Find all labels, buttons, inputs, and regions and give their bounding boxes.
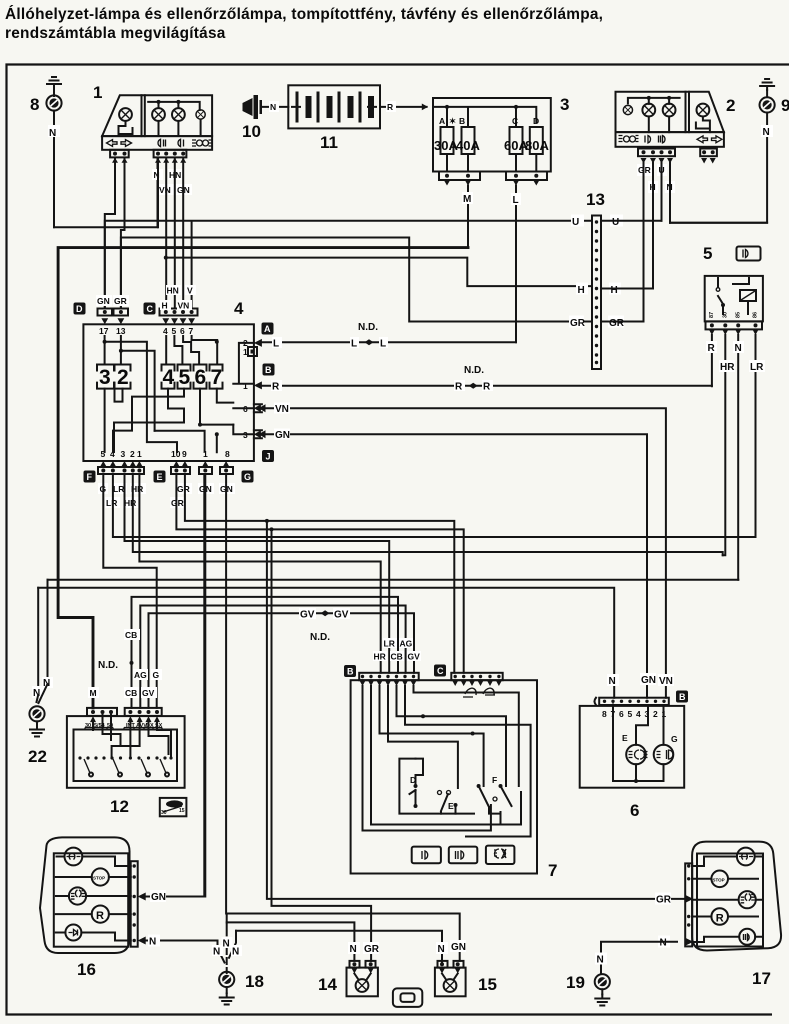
svg-text:D: D (76, 304, 83, 314)
top pin numbers (99, 326, 194, 336)
svg-text:N: N (149, 937, 156, 948)
svg-text:VN: VN (159, 185, 171, 195)
svg-text:U: U (572, 217, 579, 228)
M and L wires from fuses (468, 186, 516, 343)
svg-text:R: R (483, 382, 491, 393)
svg-text:H: H (611, 285, 618, 296)
svg-text:R: R (272, 382, 280, 393)
svg-text:G: G (671, 734, 678, 744)
icon boxes (412, 847, 441, 864)
svg-text:5: 5 (628, 709, 633, 719)
internal wiring (105, 336, 177, 452)
svg-text:8: 8 (225, 449, 230, 459)
pedal icon box (160, 798, 187, 816)
svg-text:40A: 40A (456, 138, 480, 153)
wire GN: block4 to tail lamp 16 (204, 474, 206, 897)
svg-text:HR: HR (124, 498, 136, 508)
svg-text:D: D (533, 116, 539, 126)
svg-text:L: L (513, 195, 519, 206)
svg-text:6: 6 (619, 709, 624, 719)
svg-text:1: 1 (93, 83, 102, 102)
B pad (344, 665, 356, 677)
wire GV: switch 12 to unit 7 (149, 613, 415, 708)
svg-text:GN: GN (451, 942, 466, 953)
svg-text:N: N (597, 955, 604, 966)
svg-text:14: 14 (318, 975, 337, 994)
svg-text:LR: LR (384, 639, 395, 649)
svg-text:7: 7 (189, 326, 194, 336)
svg-text:5: 5 (179, 366, 191, 389)
labels on comp12 feeds (124, 629, 140, 640)
ground 19 (566, 942, 677, 1006)
pads (638, 149, 675, 157)
svg-text:Állóhelyzet-lámpa és ellenőrző: Állóhelyzet-lámpa és ellenőrzőlámpa, tom… (5, 6, 603, 23)
svg-text:N: N (735, 343, 742, 354)
lamp L1 (119, 108, 132, 121)
svg-text:HN: HN (167, 286, 179, 296)
svg-text:GR: GR (570, 318, 586, 329)
svg-text:N.D.: N.D. (358, 322, 378, 333)
svg-text:STOP: STOP (93, 876, 105, 881)
svg-text:6: 6 (180, 326, 185, 336)
svg-text:22: 22 (28, 747, 47, 766)
ground 8 (30, 77, 62, 227)
strip icons (619, 136, 623, 142)
plate lamp 15 (435, 940, 497, 996)
svg-text:N: N (223, 939, 230, 950)
svg-text:13: 13 (586, 190, 605, 209)
svg-text:GR: GR (656, 895, 672, 906)
svg-text:L: L (273, 339, 279, 350)
svg-text:L: L (380, 339, 386, 350)
svg-text:GN: GN (97, 296, 110, 306)
F/E pad wire labels (98, 483, 235, 508)
svg-text:R: R (96, 910, 104, 922)
svg-text:C: C (437, 666, 444, 676)
right side of 13: U/H/GR to comp2 (601, 221, 767, 223)
U row (105, 221, 592, 309)
svg-text:B: B (347, 667, 354, 677)
svg-text:R: R (455, 382, 463, 393)
A B J labels right (262, 323, 275, 463)
wire GR: junction to plate lamp 14 (272, 529, 372, 961)
body outline (102, 95, 212, 136)
svg-text:30: 30 (161, 810, 167, 816)
svg-text:STOP: STOP (713, 877, 725, 882)
svg-text:A: A (439, 116, 445, 126)
svg-text:H: H (578, 285, 585, 296)
svg-text:N: N (49, 128, 56, 139)
wire N: ground 22 to relay 5 pin 85 (48, 579, 739, 581)
svg-text:CB: CB (125, 630, 137, 640)
svg-text:C: C (147, 304, 154, 314)
wire N: ground 18 to plate lamp 14 (227, 914, 355, 961)
svg-text:C: C (512, 116, 518, 126)
svg-text:F: F (87, 472, 93, 482)
internal ground hooks under C (463, 688, 495, 697)
svg-text:2: 2 (726, 96, 735, 115)
svg-text:GR: GR (114, 296, 127, 306)
svg-text:M: M (463, 194, 471, 205)
ground 18 (212, 922, 264, 1004)
switch D (399, 759, 474, 814)
svg-text:HR: HR (374, 652, 386, 662)
svg-text:3: 3 (99, 366, 111, 389)
svg-text:2: 2 (130, 449, 135, 459)
wire HR: block4 pin 2 to relay 5 pin 30 (133, 474, 723, 555)
svg-text:U: U (612, 217, 619, 228)
svg-text:LR: LR (106, 498, 117, 508)
svg-text:B: B (265, 365, 272, 375)
svg-text:GN: GN (275, 430, 290, 441)
svg-text:30: 30 (723, 312, 729, 318)
fuse C 60A (510, 127, 523, 154)
svg-text:4: 4 (163, 366, 175, 389)
tail lamp unit 17 (right) (685, 842, 781, 988)
wire GR: block4 pin 10 to connector C of unit 7 (176, 474, 463, 673)
svg-text:85: 85 (736, 312, 742, 318)
D pad (top left) (74, 295, 130, 324)
svg-text:10: 10 (242, 122, 261, 141)
contact row (78, 756, 172, 759)
svg-text:9: 9 (781, 96, 789, 115)
svg-text:N: N (270, 102, 276, 112)
wire LR: block4 pin 4 to relay 5 pin 86 (113, 474, 756, 537)
G pad label (242, 471, 254, 483)
svg-text:AG: AG (134, 670, 147, 680)
GN row (262, 434, 647, 697)
wire AG: switch 12 to unit 7 (140, 606, 405, 708)
svg-text:B: B (459, 116, 465, 126)
comp2 wire labels (637, 164, 675, 193)
svg-text:2: 2 (653, 709, 658, 719)
svg-text:80A: 80A (525, 138, 549, 153)
wire GR: block4 pin 9 to connector C of unit 7 (185, 474, 454, 673)
svg-text:G: G (244, 472, 251, 482)
switch E (438, 791, 442, 795)
F pad (bottom left) (84, 461, 145, 483)
svg-text:16: 16 (77, 960, 96, 979)
svg-text:D: D (410, 775, 416, 785)
svg-text:AG: AG (400, 639, 413, 649)
labels above B (383, 638, 397, 648)
contacts 3 2 (97, 365, 223, 389)
svg-text:VN: VN (659, 676, 673, 687)
wire N8 to comp1 (54, 158, 158, 228)
icon lamp1 (158, 139, 165, 146)
svg-text:GN: GN (641, 675, 656, 686)
M row (58, 248, 468, 708)
ground 9 (670, 79, 789, 223)
plate icon box (393, 988, 422, 1007)
svg-text:LR: LR (113, 484, 124, 494)
svg-text:G: G (153, 670, 160, 680)
svg-text:R: R (708, 343, 716, 354)
svg-text:N.D.: N.D. (310, 632, 330, 643)
comp1 left pad jogs to D-pad (105, 158, 125, 309)
svg-text:4: 4 (234, 299, 244, 318)
svg-text:GR: GR (177, 484, 190, 494)
C pad (434, 665, 446, 677)
pads below (110, 150, 129, 158)
wire HR: block4 pin 1 to connector B of unit 7 (139, 474, 380, 673)
svg-text:10: 10 (171, 449, 181, 459)
right pin numbers (243, 338, 248, 440)
svg-text:5: 5 (172, 326, 177, 336)
plate icon 00 (192, 140, 196, 146)
svg-text:CB: CB (391, 652, 403, 662)
svg-text:87: 87 (709, 312, 715, 318)
wire CB: switch 12 to unit 7 (132, 597, 399, 708)
svg-text:N: N (438, 944, 445, 955)
svg-text:N: N (232, 947, 239, 958)
junction dots on GR wires (265, 519, 269, 523)
svg-text:VN: VN (275, 404, 289, 415)
svg-text:E: E (157, 472, 163, 482)
svg-text:6: 6 (195, 366, 207, 389)
horn 10 (242, 95, 262, 141)
svg-text:19: 19 (566, 973, 585, 992)
strip icons: turn arrows (107, 140, 118, 147)
battery / fuse strip 11 (288, 85, 380, 152)
svg-text:N: N (213, 947, 220, 958)
headlamp unit 1 (93, 83, 213, 163)
svg-text:GV: GV (142, 688, 155, 698)
wire LR: block4 pin 3 to connector B of unit 7 (125, 474, 390, 673)
svg-text:GV: GV (408, 652, 421, 662)
svg-text:LR: LR (750, 362, 764, 373)
svg-text:E: E (622, 733, 628, 743)
svg-text:9: 9 (182, 449, 187, 459)
plate lamp 14 (318, 942, 380, 996)
svg-text:N: N (763, 127, 770, 138)
svg-text:CB: CB (125, 688, 137, 698)
wire N: ground 22 risers (38, 580, 47, 695)
headlamp unit 2 (616, 92, 736, 164)
relay 5 (703, 244, 763, 335)
comp1 wires down (158, 158, 183, 309)
wire G: block4 pin 5 to switch 12 (103, 474, 156, 708)
svg-text:17: 17 (752, 969, 771, 988)
right pin 1 small square (248, 347, 257, 356)
H row (166, 258, 592, 287)
relay wires (712, 335, 756, 580)
bottom pin numbers (101, 449, 231, 459)
svg-text:N: N (609, 676, 616, 687)
svg-text:rendszámtábla megvilágítása: rendszámtábla megvilágítása (5, 25, 226, 42)
svg-text:18: 18 (245, 972, 264, 991)
svg-text:J: J (266, 452, 271, 462)
fuse A 30A (441, 127, 454, 154)
svg-text:5: 5 (703, 244, 712, 263)
fuse box 3 (433, 95, 569, 186)
lamps (152, 108, 165, 121)
svg-text:1: 1 (243, 381, 248, 391)
GR row (121, 238, 592, 322)
connector 13 (569, 190, 625, 369)
lamp1 hook (119, 121, 133, 136)
inner wiring (74, 730, 178, 782)
svg-text:R: R (387, 102, 393, 112)
svg-text:F: F (492, 775, 497, 785)
svg-text:N: N (660, 938, 667, 949)
svg-text:GN: GN (151, 892, 166, 903)
svg-text:N.D.: N.D. (98, 660, 118, 671)
instrument cluster 6 (580, 673, 688, 820)
svg-text:VN: VN (178, 301, 190, 311)
svg-text:15: 15 (478, 975, 497, 994)
svg-text:4: 4 (163, 326, 168, 336)
svg-text:8: 8 (602, 709, 607, 719)
switch F (479, 786, 512, 816)
svg-text:E: E (448, 801, 454, 811)
right pin arrows (254, 339, 262, 390)
wire GN: block4 pin 8 to plate lamp 15 (226, 474, 460, 961)
VN row (262, 408, 666, 698)
right strip (131, 861, 138, 947)
svg-text:V: V (187, 286, 193, 296)
wire GN and wire N arrows at tail lamp 16 (138, 893, 146, 945)
svg-text:✶: ✶ (449, 116, 456, 126)
svg-text:6: 6 (630, 801, 639, 820)
wire N: ground 22 to cluster 6 pin 7 (38, 588, 614, 698)
svg-text:3: 3 (121, 449, 126, 459)
svg-text:GV: GV (300, 610, 315, 621)
switch unit 7 (column switch) (344, 638, 557, 880)
svg-text:N.D.: N.D. (464, 365, 484, 376)
switch unit 12 (light switch) (67, 708, 187, 816)
svg-text:11: 11 (320, 133, 338, 152)
svg-text:4: 4 (636, 709, 641, 719)
svg-text:15: 15 (179, 808, 185, 814)
E pad (bottom mid) (154, 461, 234, 483)
C pad (top) (144, 285, 198, 324)
tail lamp unit 16 (left) (40, 837, 138, 979)
svg-text:GR: GR (364, 944, 380, 955)
svg-text:3: 3 (560, 95, 569, 114)
ground 22 (28, 677, 53, 766)
fuse B 40A (462, 127, 475, 154)
svg-text:N: N (350, 944, 357, 955)
fuse D 80A (530, 127, 543, 154)
svg-text:86: 86 (753, 312, 759, 318)
lamp bus (148, 102, 200, 110)
svg-text:7: 7 (211, 366, 223, 389)
svg-text:8: 8 (30, 95, 39, 114)
icons (65, 848, 83, 866)
svg-text:2: 2 (117, 366, 129, 389)
svg-text:7: 7 (548, 861, 557, 880)
svg-text:GR: GR (609, 318, 625, 329)
svg-text:H: H (162, 301, 168, 311)
svg-text:12: 12 (110, 797, 129, 816)
svg-text:R: R (716, 912, 724, 924)
connections (56, 857, 131, 941)
comp1 wire labels (152, 169, 192, 195)
svg-text:HR: HR (720, 362, 735, 373)
svg-text:M: M (90, 688, 97, 698)
svg-text:L: L (351, 339, 357, 350)
svg-text:13: 13 (116, 326, 126, 336)
svg-text:1: 1 (137, 449, 142, 459)
svg-text:A: A (264, 324, 271, 334)
svg-text:17: 17 (99, 326, 109, 336)
comp2 wires down (644, 163, 671, 322)
internal wiring (363, 686, 491, 831)
wire N: ground 18 to plate lamp 15 (236, 931, 442, 965)
svg-text:30A: 30A (434, 138, 458, 153)
svg-text:B: B (679, 692, 686, 702)
wire GR: junction to tail lamp 17 (267, 521, 684, 899)
svg-text:GV: GV (334, 610, 349, 621)
